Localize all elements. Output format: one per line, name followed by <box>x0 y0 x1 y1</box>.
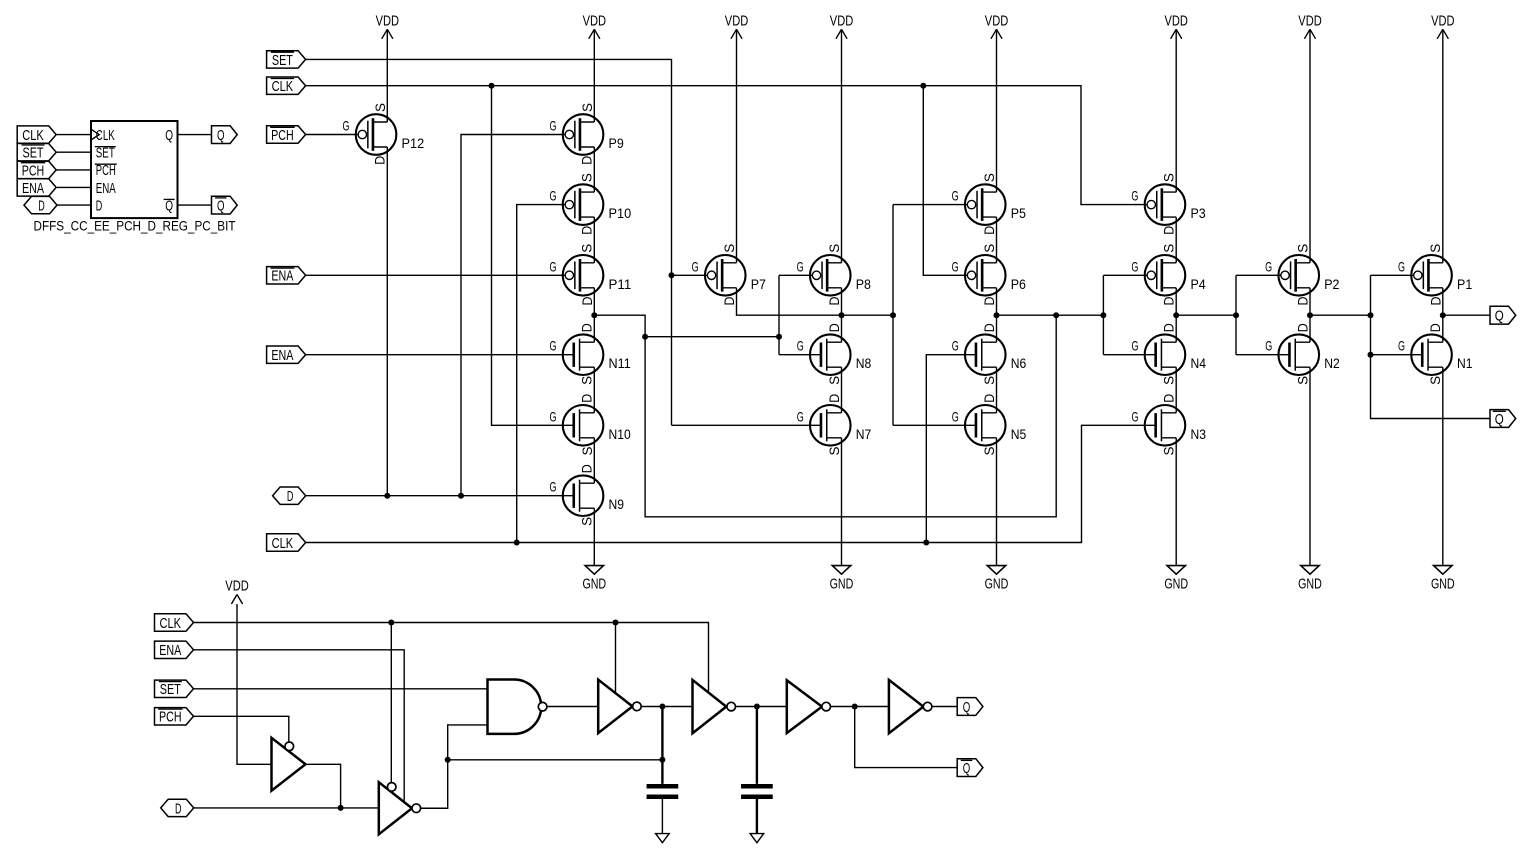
junction node C at P2/N2 vertical <box>1233 312 1239 318</box>
PMOS transistor P12 <box>342 103 424 165</box>
svg-text:S: S <box>579 244 595 253</box>
junction CLK to P10 branch <box>514 540 520 546</box>
svg-text:PCH: PCH <box>22 162 45 179</box>
svg-text:GND: GND <box>582 576 606 593</box>
svg-text:GND: GND <box>1431 576 1455 593</box>
svg-text:D: D <box>981 297 997 306</box>
ground GND (column c4) <box>832 566 850 575</box>
svg-text:N4: N4 <box>1190 355 1206 371</box>
junction node QB at P1/N1 vertical <box>1368 312 1374 318</box>
svg-text:G: G <box>952 408 959 424</box>
port CLK input flag (bottom) <box>155 614 194 631</box>
svg-text:D: D <box>175 800 182 817</box>
wire D branch to P9 gate <box>461 135 565 496</box>
svg-text:S: S <box>1294 376 1310 385</box>
PMOS transistor P8 <box>797 244 871 306</box>
wire VDD-GND rail column 2 (P9-N9 stack) <box>593 29 595 122</box>
port ENA (U1) <box>17 179 56 196</box>
svg-text:S: S <box>1161 244 1177 253</box>
inverter U5 <box>787 680 822 733</box>
svg-text:S: S <box>826 376 842 385</box>
capacitor C2 <box>741 784 773 789</box>
svg-text:N10: N10 <box>609 426 631 442</box>
wire node C to P2 gate <box>1236 274 1281 276</box>
svg-text:P4: P4 <box>1190 276 1205 292</box>
svg-text:N3: N3 <box>1190 426 1206 442</box>
svg-text:CLK: CLK <box>22 127 44 144</box>
ground GND (column c2) <box>585 566 603 575</box>
junction net Y at P5/N5 vertical <box>890 312 896 318</box>
svg-text:S: S <box>1294 244 1310 253</box>
svg-text:G: G <box>549 188 556 204</box>
svg-text:S: S <box>1427 244 1443 253</box>
svg-text:DFFS_CC_EE_PCH_D_REG_PC_BIT: DFFS_CC_EE_PCH_D_REG_PC_BIT <box>34 218 236 234</box>
wire CLKB branch to P6 gate <box>923 86 967 276</box>
svg-text:Q: Q <box>217 127 225 144</box>
svg-text:G: G <box>1398 338 1405 354</box>
svg-text:CLK: CLK <box>272 78 294 95</box>
port CLK input flag <box>267 534 306 551</box>
svg-text:S: S <box>372 103 388 112</box>
wire net X segment at column 5 <box>997 314 1104 316</box>
wire VDD-GND rail column 4 (P8-N7 stack) <box>841 29 843 262</box>
wire ENA pin to U1 <box>57 186 91 188</box>
port QB output flag <box>1490 410 1516 428</box>
power VDD rail 1 <box>382 29 393 39</box>
wire inv6 output to Q flag <box>932 706 957 708</box>
port PCHB input flag <box>267 126 306 143</box>
junction CLKB to P6 branch <box>920 83 926 89</box>
svg-text:G: G <box>1131 338 1138 354</box>
PMOS transistor P1 <box>1398 244 1472 306</box>
svg-text:S: S <box>981 447 997 456</box>
wire node QB vertical to QB flag <box>1371 275 1491 418</box>
junction inv5 output node <box>852 704 858 710</box>
svg-text:S: S <box>826 447 842 456</box>
svg-text:N1: N1 <box>1457 355 1473 371</box>
port D input flag <box>273 487 306 504</box>
svg-text:S: S <box>1427 376 1443 385</box>
svg-text:D: D <box>826 323 842 332</box>
port CLK (U1) <box>17 126 56 143</box>
NMOS transistor N3 <box>1131 394 1206 456</box>
svg-text:D: D <box>981 394 997 403</box>
wire node QB to N1 gate <box>1371 354 1423 356</box>
svg-text:P7: P7 <box>751 276 766 292</box>
svg-text:N6: N6 <box>1011 355 1027 371</box>
wire keeper link <box>448 759 663 761</box>
PMOS transistor P5 <box>952 173 1026 235</box>
svg-text:D: D <box>38 198 45 215</box>
svg-text:ENA: ENA <box>271 347 293 364</box>
NMOS transistor N1 <box>1398 323 1473 385</box>
svg-text:G: G <box>550 408 557 424</box>
wire net SETB to NAND input A <box>194 688 488 690</box>
NMOS transistor N9 <box>550 464 625 526</box>
junction net X at P4/N4 vertical <box>1100 312 1106 318</box>
svg-text:Q: Q <box>963 699 971 716</box>
svg-text:G: G <box>550 479 557 495</box>
PMOS transistor P6 <box>952 244 1026 306</box>
wire U1 Qbar to output flag <box>178 204 212 206</box>
svg-text:Q: Q <box>963 760 971 777</box>
PMOS transistor P9 <box>549 103 623 165</box>
ground GND (column c8) <box>1434 566 1452 575</box>
wire D pin to U1 <box>57 204 91 206</box>
power VDD rail 4 <box>836 29 847 39</box>
svg-text:GND: GND <box>1164 576 1188 593</box>
svg-text:VDD: VDD <box>830 13 854 30</box>
junction node Q at column 8 <box>1440 312 1446 318</box>
PMOS transistor P4 <box>1131 244 1205 306</box>
svg-text:N2: N2 <box>1324 355 1340 371</box>
svg-text:D: D <box>1161 226 1177 235</box>
junction net X link left <box>642 334 648 340</box>
junction keeper link at C1 <box>659 757 665 763</box>
svg-text:S: S <box>1161 447 1177 456</box>
svg-text:SET: SET <box>160 681 181 698</box>
svg-text:ENA: ENA <box>271 268 293 285</box>
port Q output flag <box>1490 306 1516 324</box>
wire net CLK (bottom) <box>194 623 709 693</box>
NMOS transistor N8 <box>797 323 872 385</box>
svg-text:S: S <box>1161 376 1177 385</box>
junction net Y at column 4 <box>839 312 845 318</box>
wire CLKB branch to N10 gate <box>492 86 574 426</box>
PMOS transistor P2 <box>1265 244 1339 306</box>
power VDD rail 6 <box>1171 29 1182 39</box>
svg-text:P6: P6 <box>1011 276 1026 292</box>
junction inv4 output node <box>754 704 760 710</box>
wire net ENA (bottom) <box>194 650 405 802</box>
svg-text:G: G <box>1398 258 1405 274</box>
wire CLK pin to U1 <box>56 134 91 136</box>
wire net Y to P5 gate <box>893 204 967 206</box>
wire capacitor C2 bottom to ground <box>756 799 758 834</box>
svg-text:VDD: VDD <box>1298 13 1322 30</box>
svg-text:PCH: PCH <box>159 709 182 726</box>
svg-text:P11: P11 <box>609 276 632 292</box>
svg-text:S: S <box>579 517 595 526</box>
svg-text:D: D <box>981 226 997 235</box>
wire QB branch <box>855 707 958 768</box>
wire net X to N8 gate <box>779 354 821 356</box>
junction D at P12 drain <box>384 493 390 499</box>
junction keeper link at NAND B riser <box>445 757 451 763</box>
ground GND (column c6) <box>1167 566 1185 575</box>
svg-text:G: G <box>549 118 556 134</box>
port Q (U1) <box>212 126 238 144</box>
svg-text:G: G <box>797 258 804 274</box>
svg-text:D: D <box>826 394 842 403</box>
wire net X gate vertical P4/N4 <box>1102 275 1104 354</box>
wire VDD-GND rail column 8 (P1-N1) <box>1442 29 1444 262</box>
wire CLK branch to N6 gate <box>926 355 976 543</box>
svg-text:VDD: VDD <box>225 578 249 595</box>
junction net X link right <box>776 334 782 340</box>
svg-text:N5: N5 <box>1011 426 1027 442</box>
wire CLK branch to P10 gate <box>517 205 565 543</box>
svg-text:S: S <box>579 103 595 112</box>
power VDD rail 2 <box>589 29 600 39</box>
wire ENA to N11 gate <box>306 354 574 356</box>
svg-text:S: S <box>721 244 737 253</box>
svg-text:D: D <box>826 297 842 306</box>
wire net SETB horizontal+vertical <box>306 59 672 425</box>
wire net CLKB horizontal <box>306 86 1147 205</box>
svg-text:G: G <box>1265 258 1272 274</box>
svg-text:S: S <box>579 447 595 456</box>
wire node C segment <box>1176 314 1236 316</box>
svg-text:VDD: VDD <box>376 13 400 30</box>
svg-text:S: S <box>826 244 842 253</box>
tri-state inverter U4 <box>693 680 727 733</box>
NMOS transistor N4 <box>1131 323 1206 385</box>
junction inv3 output node <box>659 704 665 710</box>
NMOS transistor N11 <box>550 323 631 385</box>
junction node C at column 6 <box>1173 312 1179 318</box>
wire net X to P8 gate <box>779 274 812 276</box>
svg-text:D: D <box>579 323 595 332</box>
wire PCH pin to U1 <box>56 169 91 171</box>
svg-text:CLK: CLK <box>96 127 115 144</box>
wire inv5 output to inv6 <box>831 706 889 708</box>
tri-state inverter U3 <box>598 680 632 733</box>
wire net Y gate vertical P5/N5 <box>892 205 894 426</box>
wire NAND output to inv3 <box>547 706 598 708</box>
wire CLK to inv3 enable pin <box>615 623 617 694</box>
junction SETB at P7 gate <box>669 272 675 278</box>
svg-text:D: D <box>1161 323 1177 332</box>
power VDD rail 8 <box>1437 29 1448 39</box>
svg-text:G: G <box>952 258 959 274</box>
power VDD rail 3 <box>731 29 742 39</box>
wire net D horizontal <box>306 495 574 497</box>
port Q output flag (bottom) <box>957 698 983 716</box>
svg-text:D: D <box>96 197 103 214</box>
svg-text:VDD: VDD <box>1165 13 1189 30</box>
power VDD rail 7 <box>1304 29 1315 39</box>
junction net X at riser <box>1053 312 1059 318</box>
junction node QB at column 7 <box>1307 312 1313 318</box>
svg-text:D: D <box>981 323 997 332</box>
wire ENAB to P11 gate <box>306 274 566 276</box>
svg-text:Q: Q <box>1495 308 1504 325</box>
svg-text:D: D <box>579 464 595 473</box>
wire node QB segment <box>1310 314 1371 316</box>
wire net CLK horizontal <box>306 425 1156 542</box>
wire SETB to P7 gate <box>672 274 708 276</box>
wire net D (bottom) <box>194 807 379 809</box>
svg-text:S: S <box>579 173 595 182</box>
svg-text:ENA: ENA <box>159 642 181 659</box>
svg-text:G: G <box>797 338 804 354</box>
svg-text:D: D <box>1427 297 1443 306</box>
svg-text:N11: N11 <box>609 355 631 371</box>
wire node C gate vertical P2/N2 <box>1235 275 1237 354</box>
junction CLKB to N10 branch <box>489 83 495 89</box>
port D input flag (bottom) <box>161 799 194 816</box>
port PCHB input flag (bottom) <box>155 708 194 725</box>
wire net X to N4 gate <box>1103 354 1155 356</box>
port CLKB input flag <box>267 77 306 94</box>
PMOS transistor P11 <box>549 244 631 306</box>
svg-text:S: S <box>1161 173 1177 182</box>
wire inv3 output to inv4 <box>641 706 692 708</box>
port ENA input flag <box>267 346 306 363</box>
port SETB input flag (bottom) <box>155 680 194 697</box>
NMOS transistor N5 <box>952 394 1027 456</box>
power VDD (bottom section) <box>231 595 242 605</box>
wire T1 output to D node <box>306 764 341 808</box>
svg-text:Q: Q <box>165 127 173 144</box>
wire net X from P11/N11 drains <box>594 315 1056 517</box>
svg-text:P9: P9 <box>609 135 624 151</box>
wire net PCHB to T1 enable bubble <box>194 716 289 742</box>
svg-text:D: D <box>579 226 595 235</box>
svg-text:D: D <box>1161 297 1177 306</box>
wire VDD-GND rail column 6 (P3-N3 stack) <box>1175 29 1177 192</box>
D flip-flop symbol U1 (DFFS_CC_EE_PCH_D_REG_PC_BIT) <box>91 121 178 218</box>
wire node QB to P1 gate <box>1371 274 1414 276</box>
wire CLK to T2 enable bubble <box>390 623 392 783</box>
svg-text:D: D <box>579 156 595 165</box>
power VDD rail 5 <box>991 29 1002 39</box>
svg-text:SET: SET <box>272 52 293 69</box>
junction CLK to inv3 enable <box>613 620 619 626</box>
wire capacitor C1 bottom to ground <box>661 799 663 834</box>
svg-text:GND: GND <box>985 576 1009 593</box>
junction node QB at N1 gate <box>1368 352 1374 358</box>
svg-text:SET: SET <box>23 145 44 162</box>
wire VDD rail column 1 (P12) <box>386 29 388 122</box>
wire inv4 output to inv5 <box>736 706 787 708</box>
svg-text:P12: P12 <box>402 135 425 151</box>
svg-text:D: D <box>372 156 388 165</box>
svg-text:P5: P5 <box>1011 205 1026 221</box>
svg-text:G: G <box>550 338 557 354</box>
svg-text:P10: P10 <box>609 205 632 221</box>
wire node C to N2 gate <box>1236 354 1289 356</box>
svg-text:S: S <box>579 376 595 385</box>
ground GND (column c5) <box>987 566 1005 575</box>
svg-text:D: D <box>1294 323 1310 332</box>
junction net X at column 5 <box>994 312 1000 318</box>
junction net X at column 2 <box>591 312 597 318</box>
wire T2 output to NAND input B <box>421 725 488 808</box>
port ENAB input flag <box>267 267 306 284</box>
svg-text:G: G <box>342 118 349 134</box>
PMOS transistor P7 <box>692 244 766 306</box>
tri-state inverter T2 <box>379 782 412 834</box>
port SET (U1) <box>17 144 56 161</box>
svg-text:N8: N8 <box>856 355 872 371</box>
svg-text:D: D <box>721 297 737 306</box>
svg-text:GND: GND <box>830 576 854 593</box>
wire net X to P4 gate <box>1103 274 1147 276</box>
wire PCHB to P12 gate <box>306 134 359 136</box>
svg-text:S: S <box>981 244 997 253</box>
port PCH (U1) <box>17 161 56 178</box>
svg-text:G: G <box>1131 188 1138 204</box>
wire VDD-GND rail column 5 (P5-N5 stack) <box>996 29 998 192</box>
PMOS transistor P10 <box>549 173 631 235</box>
PMOS transistor P3 <box>1131 173 1205 235</box>
svg-text:PCH: PCH <box>271 127 294 144</box>
wire SET pin to U1 <box>56 151 91 153</box>
svg-text:S: S <box>981 376 997 385</box>
svg-text:D: D <box>579 394 595 403</box>
svg-text:VDD: VDD <box>583 13 607 30</box>
svg-text:G: G <box>1131 408 1138 424</box>
port D (U1) <box>24 196 57 213</box>
svg-text:S: S <box>981 173 997 182</box>
wire net Y from P7 drain <box>737 288 894 315</box>
ground GND (column c7) <box>1301 566 1319 575</box>
svg-text:P8: P8 <box>856 276 871 292</box>
svg-text:P3: P3 <box>1190 205 1205 221</box>
svg-text:VDD: VDD <box>1431 13 1455 30</box>
wire capacitor C2 top <box>756 707 758 784</box>
ground (C1) <box>656 834 670 843</box>
svg-text:D: D <box>1427 323 1443 332</box>
junction CLK to N6 branch <box>923 540 929 546</box>
svg-text:G: G <box>1265 338 1272 354</box>
svg-text:G: G <box>549 258 556 274</box>
svg-text:CLK: CLK <box>272 535 294 552</box>
NAND gate G1 <box>488 680 542 734</box>
svg-text:D: D <box>579 297 595 306</box>
svg-text:ENA: ENA <box>96 180 116 197</box>
wire VDD to buffer T1 input <box>237 604 272 764</box>
svg-text:GND: GND <box>1298 576 1322 593</box>
svg-text:Q: Q <box>1495 411 1504 428</box>
junction D at T1 output <box>338 805 344 811</box>
port SETB input flag <box>267 51 306 68</box>
wire capacitor C1 top <box>661 707 663 784</box>
svg-text:G: G <box>1131 258 1138 274</box>
svg-text:VDD: VDD <box>985 13 1009 30</box>
svg-text:P2: P2 <box>1324 276 1339 292</box>
svg-text:N9: N9 <box>609 496 625 512</box>
port ENA input flag (bottom) <box>155 641 194 658</box>
junction CLK to T2 enable <box>388 620 394 626</box>
NMOS transistor N6 <box>952 323 1027 385</box>
svg-text:D: D <box>1294 297 1310 306</box>
svg-text:D: D <box>1161 394 1177 403</box>
svg-text:G: G <box>797 408 804 424</box>
ground (C2) <box>750 834 764 843</box>
wire net X gate vertical P8/N8 <box>778 275 780 354</box>
svg-text:G: G <box>692 258 699 274</box>
svg-text:G: G <box>952 188 959 204</box>
svg-text:G: G <box>952 338 959 354</box>
NMOS transistor N10 <box>550 394 631 456</box>
NMOS transistor N7 <box>797 394 872 456</box>
svg-text:VDD: VDD <box>725 13 749 30</box>
wire VDD rail column 3 (P7) <box>736 29 738 262</box>
NMOS transistor N2 <box>1265 323 1340 385</box>
inverter U6 <box>889 680 924 733</box>
wire SETB to N7 gate <box>672 424 821 426</box>
wire node Q to Q flag <box>1443 314 1490 316</box>
port QB output flag (bottom) <box>957 759 983 777</box>
svg-text:CLK: CLK <box>160 615 182 632</box>
svg-text:ENA: ENA <box>22 180 44 197</box>
svg-text:N7: N7 <box>856 426 872 442</box>
port Qbar (U1) <box>212 196 238 214</box>
wire net X link to P8/N8 gates <box>645 336 779 338</box>
